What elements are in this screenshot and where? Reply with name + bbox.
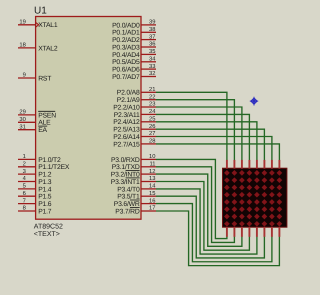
pin 25 P2.4/A12	[141, 121, 156, 123]
matrix bottom pin 7	[271, 227, 273, 237]
svg-text:P0.7/AD7: P0.7/AD7	[112, 74, 140, 81]
pin 17 P3.7/RD	[141, 210, 156, 212]
IC U1 AT89C52 microcontroller body	[36, 17, 141, 220]
blue origin marker	[250, 97, 258, 106]
matrix bottom pin 5	[256, 227, 258, 237]
pin 36 P0.3/AD3	[141, 46, 156, 48]
svg-text:12: 12	[149, 168, 155, 175]
svg-text:29: 29	[19, 109, 25, 116]
svg-text:P0.3/AD3: P0.3/AD3	[112, 44, 140, 51]
svg-text:P2.0/A8: P2.0/A8	[117, 90, 140, 97]
pin 1 P1.0/T2	[18, 158, 36, 160]
svg-text:31: 31	[19, 123, 25, 130]
matrix top pin 5	[256, 160, 258, 169]
pin 9 RST	[18, 77, 36, 79]
svg-text:27: 27	[149, 130, 155, 137]
svg-text:U1: U1	[34, 6, 47, 17]
pin 21 P2.0/A8	[141, 91, 156, 93]
svg-text:35: 35	[149, 48, 155, 55]
svg-text:36: 36	[149, 41, 155, 48]
pin 37 P0.2/AD2	[141, 39, 156, 41]
svg-text:P2.7/A15: P2.7/A15	[113, 141, 140, 148]
svg-text:P2.1/A9: P2.1/A9	[117, 97, 140, 104]
wire P2.1 (pin 22) to matrix top pin 2	[156, 100, 234, 161]
svg-text:P3.4/T0: P3.4/T0	[117, 186, 140, 193]
svg-text:P1.6: P1.6	[38, 201, 52, 208]
svg-text:P0.4/AD4: P0.4/AD4	[112, 52, 140, 59]
clock arrow on XTAL1	[35, 22, 38, 27]
svg-text:P0.6/AD6: P0.6/AD6	[112, 67, 140, 74]
pin 7 P1.6	[18, 203, 36, 205]
svg-text:EA: EA	[38, 127, 47, 134]
pin 38 P0.1/AD1	[141, 31, 156, 33]
svg-text:21: 21	[149, 86, 155, 93]
pin 3 P1.2	[18, 173, 36, 175]
pin 5 P1.4	[18, 188, 36, 190]
svg-text:13: 13	[149, 175, 155, 182]
wire P3.4 (pin 14) to matrix bottom pin 5	[156, 189, 257, 254]
svg-text:18: 18	[19, 42, 25, 49]
svg-text:2: 2	[23, 161, 26, 168]
svg-text:P1.1/T2EX: P1.1/T2EX	[38, 164, 70, 171]
svg-text:RST: RST	[38, 75, 51, 82]
matrix top pin 3	[241, 160, 243, 169]
svg-text:22: 22	[149, 93, 155, 100]
svg-text:P1.2: P1.2	[38, 172, 52, 179]
svg-text:8: 8	[23, 205, 26, 212]
wire P2.5 (pin 26) to matrix top pin 6	[156, 129, 264, 160]
pin 35 P0.4/AD4	[141, 53, 156, 55]
svg-text:ALE: ALE	[38, 120, 51, 127]
svg-text:P2.3/A11: P2.3/A11	[114, 112, 140, 119]
svg-text:P2.5/A13: P2.5/A13	[113, 127, 140, 134]
svg-text:26: 26	[149, 123, 155, 130]
svg-text:16: 16	[149, 197, 155, 204]
pin 28 P2.7/A15	[141, 143, 156, 145]
svg-text:P2.6/A14: P2.6/A14	[113, 134, 140, 141]
svg-text:17: 17	[149, 206, 155, 212]
svg-text:28: 28	[149, 138, 155, 145]
matrix bottom pin 8	[278, 227, 280, 237]
matrix bottom pin 3	[241, 227, 243, 237]
svg-text:19: 19	[19, 19, 25, 26]
svg-text:14: 14	[149, 184, 156, 190]
svg-text:P3.7/RD: P3.7/RD	[115, 208, 140, 215]
pin 4 P1.3	[18, 181, 36, 183]
pin 14 P3.4/T0	[141, 188, 156, 190]
wire P3.1 (pin 11) to matrix bottom pin 2	[156, 167, 234, 243]
svg-text:7: 7	[23, 198, 26, 204]
pin 27 P2.6/A14	[141, 136, 156, 138]
svg-text:P3.3/INT1: P3.3/INT1	[111, 179, 140, 186]
wire P2.2 (pin 23) to matrix top pin 3	[156, 107, 242, 161]
matrix bottom pin 6	[263, 227, 265, 237]
svg-text:38: 38	[149, 26, 155, 33]
matrix LED dots 8x8	[224, 170, 282, 227]
pin 11 P3.1/TXD	[141, 166, 156, 168]
matrix top pin 2	[233, 160, 235, 169]
svg-text:P3.6/WR: P3.6/WR	[114, 201, 140, 208]
pin 19 XTAL1	[18, 24, 36, 26]
svg-text:11: 11	[149, 162, 155, 168]
pin 2 P1.1/T2EX	[18, 166, 36, 168]
svg-text:15: 15	[149, 191, 155, 197]
pin 32 P0.7/AD7	[141, 76, 156, 78]
svg-text:P2.2/A10: P2.2/A10	[113, 104, 140, 111]
wire P3.5 (pin 15) to matrix bottom pin 6	[156, 196, 264, 258]
svg-text:1: 1	[23, 154, 26, 160]
wire P2.7 (pin 28) to matrix top pin 8	[156, 144, 279, 161]
svg-text:P1.4: P1.4	[38, 186, 52, 193]
svg-text:XTAL1: XTAL1	[38, 22, 58, 29]
svg-text:24: 24	[149, 108, 156, 115]
svg-text:P3.0/RXD: P3.0/RXD	[111, 157, 140, 164]
svg-text:P0.0/AD0: P0.0/AD0	[112, 22, 140, 29]
wire P2.4 (pin 25) to matrix top pin 5	[156, 122, 257, 161]
matrix top pin 1	[226, 160, 228, 169]
pin 26 P2.5/A13	[141, 128, 156, 130]
pin 33 P0.6/AD6	[141, 68, 156, 70]
svg-text:P0.2/AD2: P0.2/AD2	[112, 37, 140, 44]
svg-text:10: 10	[149, 153, 155, 160]
svg-text:6: 6	[23, 190, 26, 197]
pin 10 P3.0/RXD	[141, 158, 156, 160]
svg-text:37: 37	[149, 33, 155, 40]
svg-text:33: 33	[149, 63, 155, 70]
svg-text:<TEXT>: <TEXT>	[34, 231, 60, 238]
matrix top pin 4	[248, 160, 250, 169]
pin 18 XTAL2	[18, 47, 36, 49]
wire P3.0 (pin 10) to matrix bottom pin 1	[156, 159, 227, 238]
svg-text:P0.5/AD5: P0.5/AD5	[112, 59, 140, 66]
LED matrix body	[223, 168, 287, 227]
svg-text:P1.0/T2: P1.0/T2	[38, 157, 61, 164]
svg-text:P1.7: P1.7	[38, 208, 52, 215]
svg-text:25: 25	[149, 116, 155, 123]
wire P3.3 (pin 13) to matrix bottom pin 4	[156, 182, 249, 251]
pin 29 PSEN	[18, 114, 36, 116]
svg-text:39: 39	[149, 19, 155, 26]
pin 34 P0.5/AD5	[141, 61, 156, 63]
matrix bottom pin 2	[233, 227, 235, 237]
pin 15 P3.5/T1	[141, 195, 156, 197]
matrix bottom pin 1	[226, 227, 228, 237]
wire P2.0 (pin 21) to matrix top pin 1	[156, 92, 227, 160]
svg-text:AT89C52: AT89C52	[34, 224, 63, 231]
svg-text:32: 32	[149, 70, 155, 77]
svg-text:3: 3	[23, 168, 26, 175]
svg-text:P2.4/A12: P2.4/A12	[113, 119, 140, 126]
pin 23 P2.2/A10	[141, 106, 156, 108]
pin 16 P3.6/WR	[141, 203, 156, 205]
svg-text:P3.2/INT0: P3.2/INT0	[111, 172, 140, 179]
matrix top pin 7	[271, 160, 273, 169]
svg-text:P1.5: P1.5	[38, 194, 52, 201]
pin 24 P2.3/A11	[141, 113, 156, 115]
matrix bottom pin 4	[248, 227, 250, 237]
wire P3.7 (pin 17) to matrix bottom pin 8	[156, 211, 279, 266]
pin 31 EA	[18, 129, 36, 131]
pin 13 P3.3/INT1	[141, 181, 156, 183]
wire P2.6 (pin 27) to matrix top pin 7	[156, 137, 272, 161]
wire P2.3 (pin 24) to matrix top pin 4	[156, 114, 249, 160]
matrix top pin 6	[263, 160, 265, 169]
pin 12 P3.2/INT0	[141, 173, 156, 175]
matrix top pin 8	[278, 160, 280, 169]
svg-text:P1.3: P1.3	[38, 179, 52, 186]
svg-text:23: 23	[149, 101, 155, 108]
svg-text:5: 5	[23, 184, 26, 190]
svg-text:PSEN: PSEN	[38, 112, 56, 119]
pin 30 ALE	[18, 121, 36, 123]
pin 8 P1.7	[18, 210, 36, 212]
svg-text:P0.1/AD1: P0.1/AD1	[112, 30, 140, 37]
pin 6 P1.5	[18, 195, 36, 197]
pin 39 P0.0/AD0	[141, 24, 156, 26]
wire P3.6 (pin 16) to matrix bottom pin 7	[156, 204, 272, 262]
svg-text:30: 30	[19, 116, 25, 123]
wire P3.2 (pin 12) to matrix bottom pin 3	[156, 174, 242, 246]
pin 22 P2.1/A9	[141, 99, 156, 101]
svg-text:34: 34	[149, 56, 156, 63]
svg-text:XTAL2: XTAL2	[38, 45, 58, 52]
svg-text:9: 9	[23, 72, 26, 79]
